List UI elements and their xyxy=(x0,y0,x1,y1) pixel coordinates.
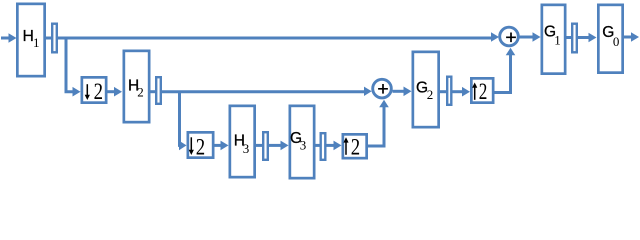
arrow T3 to G3 xyxy=(269,141,289,151)
synthesis filter G1 xyxy=(542,5,565,74)
glyph up-arrow and 2 in U2 xyxy=(472,83,477,100)
wire top row to summer S1 xyxy=(58,32,499,42)
upsampler U1 (up 2) xyxy=(343,134,367,158)
wire branch down to downsampler D2 xyxy=(179,92,187,151)
label G1 xyxy=(544,24,561,48)
label H3 xyxy=(234,133,250,157)
wire G2 to delay T6 xyxy=(439,90,447,93)
svg-text:1: 1 xyxy=(33,35,40,50)
svg-text:1: 1 xyxy=(554,32,561,47)
arrow T6 to upsampler U2 xyxy=(453,87,471,97)
analysis filter H1 xyxy=(17,4,44,76)
wire U1 up to summer S2 xyxy=(367,100,389,146)
arrow T5 to G0 xyxy=(578,33,597,43)
svg-text:2: 2 xyxy=(196,135,205,160)
svg-text:2: 2 xyxy=(479,79,488,104)
synthesis filter G0 xyxy=(598,5,622,73)
wire H3 to delay T3 xyxy=(256,144,263,147)
summer S2 xyxy=(373,79,392,98)
label G2 xyxy=(416,79,433,102)
arrow S1 to G1 xyxy=(520,32,541,42)
delay element T6 xyxy=(447,77,451,105)
delay element T5 xyxy=(572,24,577,53)
output arrow xyxy=(624,32,639,42)
label H2 xyxy=(128,78,144,100)
delay element T2 xyxy=(156,77,161,104)
summer S1 xyxy=(500,27,519,46)
wire H2 to delay T2 xyxy=(150,90,156,93)
delay element T4 xyxy=(321,133,326,160)
delay element T1 xyxy=(52,24,57,53)
wire G1 to delay T5 xyxy=(566,36,572,39)
delay element T3 xyxy=(263,132,268,160)
synthesis filter G3 xyxy=(290,106,314,178)
synthesis filter G2 xyxy=(413,52,439,127)
downsampler D2 (down 2) xyxy=(188,132,213,157)
glyph up-arrow and 2 in U1 xyxy=(343,137,348,155)
label G3 xyxy=(290,130,306,152)
wire U2 up to summer S1 xyxy=(494,48,515,93)
svg-text:0: 0 xyxy=(613,34,620,49)
glyph down-arrow and 2 in D1 xyxy=(85,84,90,100)
arrow T4 to upsampler U1 xyxy=(327,141,342,151)
analysis filter H3 xyxy=(230,106,255,177)
svg-text:2: 2 xyxy=(94,79,103,104)
svg-text:2: 2 xyxy=(427,87,434,102)
wire branch down to downsampler D1 xyxy=(66,38,81,97)
downsampler D1 (down 2) xyxy=(82,77,106,102)
wire G3 to delay T4 xyxy=(315,144,321,147)
label G0 xyxy=(602,24,619,49)
glyph down-arrow and 2 in D2 xyxy=(189,137,194,155)
arrow D2 to H3 xyxy=(215,141,229,151)
arrow D1 to H2 xyxy=(108,87,123,97)
analysis filter H2 xyxy=(124,51,149,122)
arrow S2 to G2 xyxy=(393,87,412,97)
svg-text:3: 3 xyxy=(243,141,250,156)
wire H1 to delay T1 xyxy=(46,37,52,40)
svg-text:3: 3 xyxy=(300,137,307,152)
label H1 xyxy=(23,28,40,50)
upsampler U2 (up 2) xyxy=(471,78,493,102)
wire mid row to summer S2 xyxy=(162,87,372,96)
input arrow xyxy=(1,33,17,43)
svg-text:2: 2 xyxy=(351,134,360,159)
svg-text:2: 2 xyxy=(137,85,144,100)
